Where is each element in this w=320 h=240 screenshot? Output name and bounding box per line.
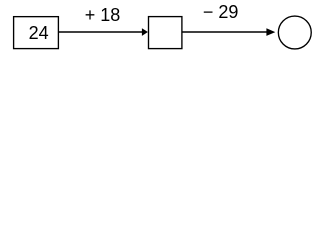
svg-text:24: 24 (29, 23, 49, 43)
result circle (empty) (278, 16, 311, 49)
arrowhead 2 (266, 28, 275, 36)
wire: arrow 1 shaft (58, 31, 142, 33)
middle box (empty) (149, 17, 182, 49)
arrowhead 1 (142, 28, 148, 36)
wire: arrow 2 shaft (182, 31, 267, 33)
start box (24) (14, 17, 59, 49)
svg-text:− 29: − 29 (203, 2, 239, 22)
svg-text:+ 18: + 18 (85, 5, 121, 25)
